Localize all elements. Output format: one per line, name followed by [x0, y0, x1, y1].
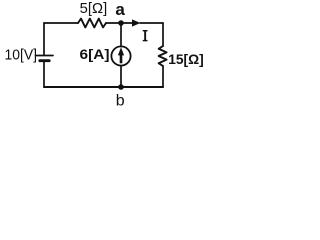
current source 6[A] internal up arrow: [118, 47, 124, 63]
wire right vertical lower: [162, 66, 164, 87]
resistor R 5[Ω] zigzag: [78, 19, 106, 28]
resistor R 15[Ω] zigzag: [159, 46, 167, 66]
current label I: [143, 30, 148, 41]
node b junction dot: [118, 84, 124, 90]
wire top-left segment: [44, 22, 78, 24]
wire middle vertical upper: [120, 23, 122, 47]
wire middle vertical lower: [120, 66, 122, 87]
svg-text:b: b: [116, 92, 125, 109]
wire top-right segment after arrow: [140, 22, 163, 24]
svg-text:5[Ω]: 5[Ω]: [80, 1, 108, 17]
voltage source 10[V] long plate: [36, 55, 54, 57]
node a junction dot: [118, 20, 124, 26]
svg-text:15[Ω]: 15[Ω]: [168, 51, 204, 67]
voltage source 10[V] short thick plate: [40, 59, 49, 62]
wire right vertical upper: [162, 23, 164, 46]
wire left vertical lower: [43, 62, 45, 87]
svg-text:10[V]: 10[V]: [5, 48, 38, 64]
svg-text:a: a: [115, 0, 125, 19]
wire left vertical upper: [43, 23, 45, 55]
wire top-middle segment: [106, 22, 132, 24]
wire bottom: [44, 86, 163, 88]
svg-text:6[A]: 6[A]: [80, 46, 110, 62]
current source 6[A] circle: [111, 46, 130, 65]
current arrow I on top wire: [132, 19, 140, 26]
